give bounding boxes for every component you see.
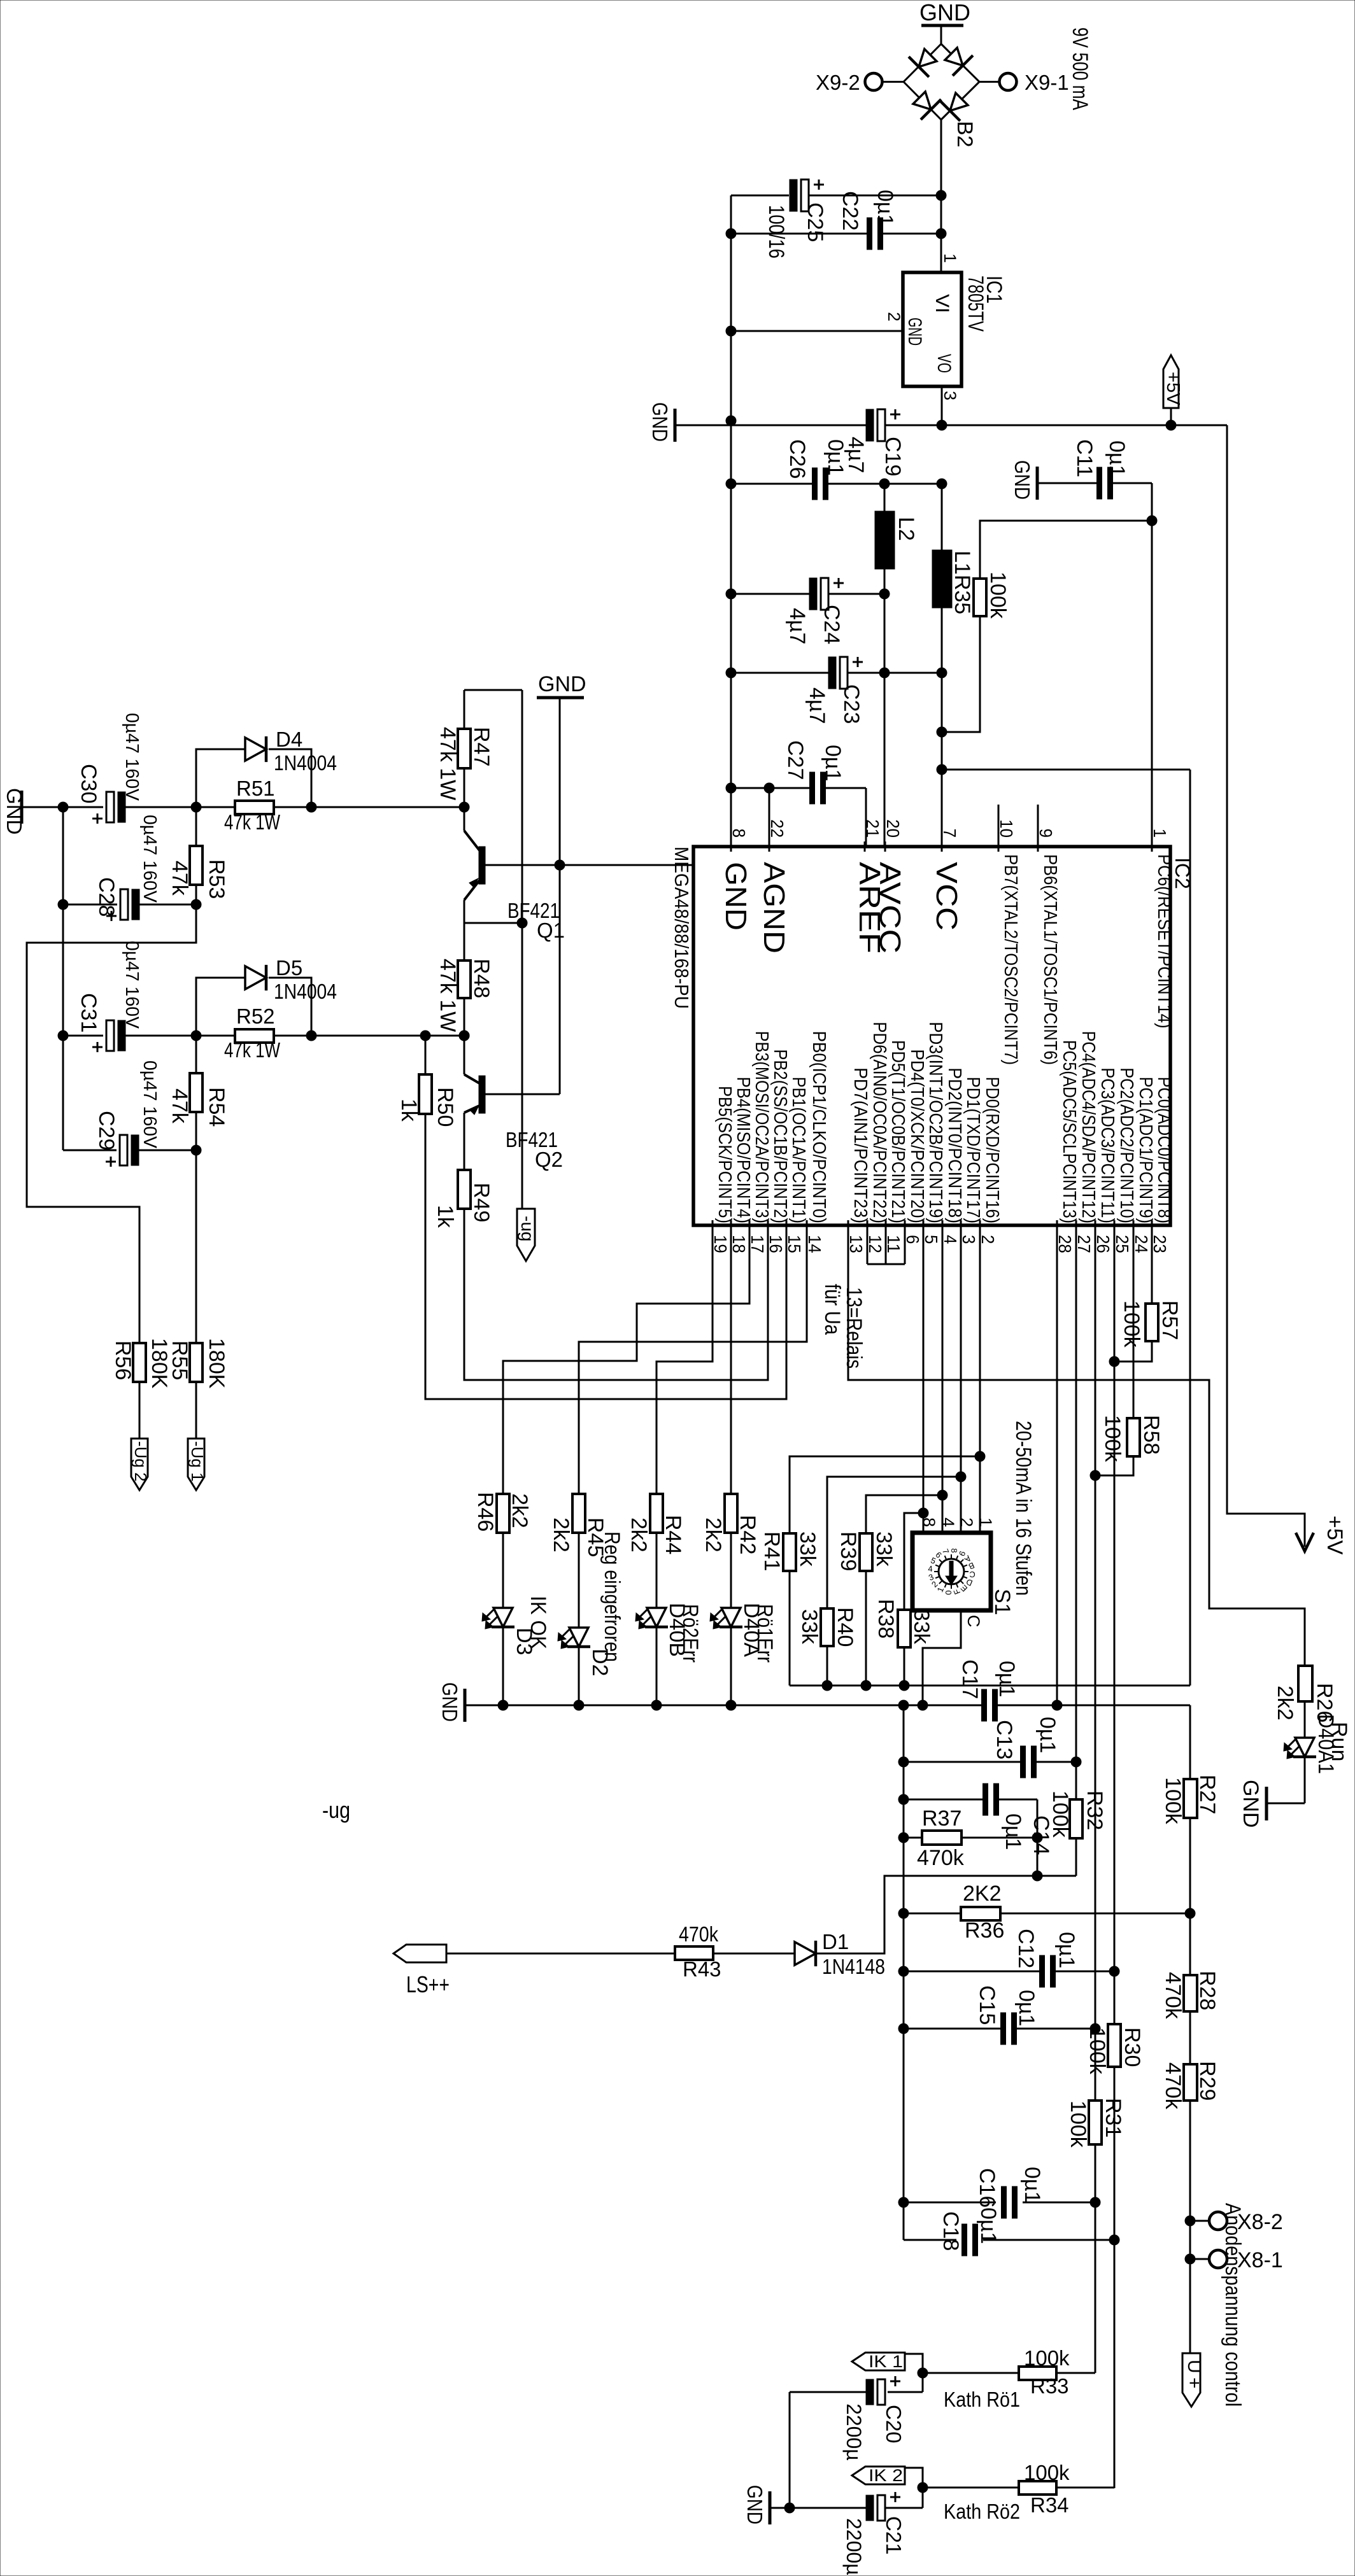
- svg-text:PC0(ADC0/PCINT8): PC0(ADC0/PCINT8): [1154, 1077, 1174, 1223]
- svg-text:D40B: D40B: [665, 1603, 689, 1657]
- svg-text:8: 8: [949, 1548, 959, 1552]
- svg-text:2k2: 2k2: [701, 1517, 725, 1552]
- svg-text:4: 4: [928, 1564, 932, 1573]
- svg-text:100/16: 100/16: [764, 205, 788, 258]
- svg-text:R57: R57: [1158, 1300, 1182, 1340]
- svg-text:R32: R32: [1082, 1791, 1107, 1830]
- svg-text:2k2: 2k2: [507, 1493, 532, 1528]
- svg-text:C19: C19: [881, 437, 905, 476]
- svg-text:R30: R30: [1120, 2027, 1144, 2067]
- svg-text:8: 8: [919, 1517, 939, 1527]
- svg-text:20: 20: [883, 819, 903, 838]
- svg-text:-ug: -ug: [322, 1797, 350, 1823]
- svg-text:PC5(ADC5/SCLPCINT13): PC5(ADC5/SCLPCINT13): [1059, 1040, 1079, 1223]
- svg-text:2200µ: 2200µ: [842, 2404, 865, 2461]
- svg-text:Q2: Q2: [535, 1148, 563, 1171]
- svg-text:100k: 100k: [1066, 2101, 1090, 2148]
- svg-text:C28: C28: [94, 877, 118, 917]
- svg-text:2: 2: [957, 1517, 976, 1527]
- svg-text:470k: 470k: [917, 1846, 965, 1870]
- svg-text:GND: GND: [648, 402, 672, 442]
- svg-text:R56: R56: [111, 1341, 135, 1380]
- svg-text:GND: GND: [3, 788, 26, 834]
- svg-text:0µ1: 0µ1: [1001, 1813, 1025, 1850]
- svg-text:0µ47 160V: 0µ47 160V: [122, 941, 142, 1029]
- svg-text:R31: R31: [1101, 2098, 1125, 2137]
- svg-text:C29: C29: [94, 1111, 118, 1150]
- svg-text:PC4(ADC4/SDA/PCINT12): PC4(ADC4/SDA/PCINT12): [1078, 1031, 1098, 1223]
- svg-text:C31: C31: [76, 993, 101, 1032]
- svg-text:+5V: +5V: [1163, 372, 1183, 405]
- svg-text:PB5(SCK/PCINT5): PB5(SCK/PCINT5): [714, 1086, 735, 1223]
- svg-text:R44: R44: [661, 1515, 685, 1554]
- svg-text:R48: R48: [469, 959, 493, 998]
- svg-text:3: 3: [940, 391, 960, 400]
- svg-text:X9-2: X9-2: [816, 71, 860, 94]
- svg-text:1N4148: 1N4148: [822, 1955, 885, 1978]
- svg-text:GND: GND: [438, 1682, 462, 1722]
- svg-text:Q1: Q1: [537, 918, 565, 942]
- svg-text:15: 15: [784, 1235, 804, 1253]
- svg-text:7805TV: 7805TV: [963, 276, 988, 332]
- svg-text:R42: R42: [735, 1515, 760, 1554]
- svg-text:PB0(ICP1/CLKO/PCINT0): PB0(ICP1/CLKO/PCINT0): [809, 1031, 829, 1223]
- svg-text:4: 4: [939, 1517, 958, 1527]
- svg-text:47k 1W: 47k 1W: [224, 1038, 281, 1062]
- svg-text:AGND: AGND: [758, 862, 791, 954]
- svg-text:4µ7: 4µ7: [785, 608, 809, 644]
- svg-text:27: 27: [1074, 1235, 1094, 1253]
- svg-text:VI: VI: [932, 294, 953, 313]
- svg-text:LS++: LS++: [406, 1971, 450, 1997]
- svg-text:11: 11: [884, 1235, 904, 1253]
- svg-text:VO: VO: [933, 354, 954, 373]
- svg-text:0µ1: 0µ1: [976, 2207, 1000, 2244]
- svg-text:PD5(T1/OC0B/PCINT21): PD5(T1/OC0B/PCINT21): [888, 1040, 908, 1223]
- svg-text:24: 24: [1132, 1235, 1151, 1253]
- svg-text:2k2: 2k2: [549, 1517, 573, 1552]
- svg-text:47k 1W: 47k 1W: [436, 727, 460, 800]
- svg-text:9: 9: [1036, 829, 1056, 838]
- svg-text:19: 19: [711, 1235, 730, 1253]
- svg-text:C22: C22: [838, 191, 862, 230]
- svg-text:3: 3: [959, 1235, 979, 1244]
- svg-text:2K2: 2K2: [963, 1882, 1002, 1906]
- svg-text:PB4(MISO/PCINT4): PB4(MISO/PCINT4): [733, 1077, 753, 1223]
- svg-text:PD7(AIN1/PCINT23): PD7(AIN1/PCINT23): [850, 1067, 870, 1223]
- svg-text:0µ47 160V: 0µ47 160V: [139, 815, 160, 903]
- svg-text:R36: R36: [965, 1918, 1004, 1943]
- svg-text:PB3(MOSI/OC2A/PCINT3): PB3(MOSI/OC2A/PCINT3): [751, 1031, 772, 1223]
- svg-text:7: 7: [940, 829, 960, 838]
- svg-text:IK 1: IK 1: [869, 2352, 903, 2371]
- svg-text:47k 1W: 47k 1W: [224, 810, 281, 834]
- svg-text:1k: 1k: [433, 1205, 457, 1228]
- svg-text:0µ1: 0µ1: [821, 745, 845, 781]
- svg-text:R28: R28: [1195, 1971, 1219, 2010]
- svg-text:C24: C24: [819, 605, 844, 644]
- svg-text:Kath Rö1: Kath Rö1: [944, 2388, 1020, 2411]
- svg-text:PB1(OC1A/PCINT1): PB1(OC1A/PCINT1): [788, 1077, 809, 1223]
- svg-text:GND: GND: [743, 2485, 767, 2524]
- svg-text:13=Relais: 13=Relais: [842, 1287, 866, 1369]
- svg-text:PB7(XTAL2/TOSC2/PCINT7): PB7(XTAL2/TOSC2/PCINT7): [1000, 854, 1021, 1065]
- svg-text:PC3(ADC3/PCINT11): PC3(ADC3/PCINT11): [1097, 1067, 1117, 1223]
- svg-text:21: 21: [863, 819, 883, 838]
- svg-text:PD3(INT1/OC2B/PCINT19): PD3(INT1/OC2B/PCINT19): [925, 1022, 946, 1223]
- svg-text:C23: C23: [839, 684, 863, 724]
- svg-text:C14: C14: [1029, 1815, 1053, 1855]
- svg-text:100k: 100k: [1100, 1415, 1124, 1463]
- svg-text:R53: R53: [204, 859, 229, 899]
- svg-text:6: 6: [903, 1235, 923, 1244]
- svg-text:C30: C30: [76, 764, 101, 803]
- svg-text:PD1(TXD/PCINT17): PD1(TXD/PCINT17): [963, 1077, 983, 1223]
- svg-text:2: 2: [978, 1235, 998, 1244]
- svg-text:470k: 470k: [1161, 2062, 1185, 2110]
- svg-text:C26: C26: [785, 439, 809, 479]
- svg-text:16: 16: [766, 1235, 786, 1253]
- svg-text:0µ47 160V: 0µ47 160V: [122, 713, 142, 801]
- svg-text:0µ1: 0µ1: [1054, 1932, 1079, 1968]
- svg-text:R38: R38: [874, 1599, 898, 1638]
- svg-text:0µ1: 0µ1: [1014, 1990, 1039, 2026]
- svg-text:5: 5: [921, 1235, 941, 1244]
- svg-text:R46: R46: [473, 1492, 497, 1531]
- svg-text:1N4004: 1N4004: [274, 980, 337, 1003]
- svg-text:C: C: [964, 1615, 983, 1628]
- svg-text:Kath Rö2: Kath Rö2: [944, 2500, 1020, 2523]
- svg-text:C11: C11: [1072, 439, 1096, 477]
- svg-text:PD6(AIN0/OC0A/PCINT22): PD6(AIN0/OC0A/PCINT22): [869, 1022, 890, 1223]
- svg-text:1N4004: 1N4004: [274, 751, 337, 775]
- svg-text:X9-1: X9-1: [1025, 71, 1069, 94]
- svg-text:28: 28: [1055, 1235, 1075, 1253]
- svg-text:Reg eingefroren: Reg eingefroren: [600, 1531, 624, 1662]
- svg-text:VCC: VCC: [930, 862, 963, 931]
- svg-text:R55: R55: [167, 1341, 192, 1380]
- svg-text:L2: L2: [894, 517, 918, 541]
- svg-text:C15: C15: [975, 1985, 999, 2025]
- svg-text:22: 22: [767, 819, 787, 838]
- svg-text:C20: C20: [882, 2405, 905, 2444]
- svg-text:100k: 100k: [1024, 2346, 1070, 2370]
- svg-text:C12: C12: [1014, 1929, 1038, 1968]
- svg-text:IK 2: IK 2: [869, 2466, 903, 2485]
- svg-text:U: U: [1184, 2360, 1205, 2374]
- svg-text:R37: R37: [922, 1806, 961, 1831]
- svg-text:0µ1: 0µ1: [1020, 2167, 1044, 2203]
- svg-text:2k2: 2k2: [627, 1517, 651, 1552]
- svg-text:4µ7: 4µ7: [805, 687, 829, 724]
- svg-text:GND: GND: [904, 318, 925, 346]
- svg-text:47k: 47k: [167, 861, 192, 896]
- svg-text:100k: 100k: [1161, 1777, 1185, 1825]
- svg-text:-Ug 1: -Ug 1: [188, 1441, 207, 1482]
- svg-text:14: 14: [805, 1235, 825, 1253]
- svg-text:GND: GND: [538, 672, 586, 696]
- svg-text:D2: D2: [588, 1649, 612, 1676]
- svg-text:18: 18: [729, 1235, 749, 1253]
- svg-text:GND: GND: [919, 0, 970, 25]
- svg-text:MEGA48/88/168-PU: MEGA48/88/168-PU: [670, 847, 693, 1009]
- svg-text:0µ1: 0µ1: [1035, 1717, 1060, 1753]
- svg-text:R52: R52: [236, 1004, 275, 1028]
- svg-text:0µ1: 0µ1: [1105, 440, 1129, 477]
- svg-text:GND: GND: [720, 862, 753, 931]
- svg-text:D3: D3: [512, 1628, 536, 1655]
- svg-text:1: 1: [1150, 829, 1170, 838]
- svg-text:GND: GND: [1011, 460, 1034, 500]
- svg-text:8: 8: [729, 829, 749, 838]
- svg-text:PD2(INT0/PCINT18): PD2(INT0/PCINT18): [944, 1067, 965, 1223]
- svg-text:D40A1: D40A1: [1314, 1714, 1338, 1774]
- svg-text:L1R35: L1R35: [950, 551, 974, 614]
- svg-text:PB6(XTAL1/TOSC1/PCINT6): PB6(XTAL1/TOSC1/PCINT6): [1040, 854, 1060, 1065]
- svg-text:180K: 180K: [204, 1338, 229, 1389]
- svg-text:PB2(SS/OC1B/PCINT2): PB2(SS/OC1B/PCINT2): [770, 1049, 790, 1223]
- svg-text:R43: R43: [683, 1957, 721, 1981]
- svg-text:100k: 100k: [1024, 2461, 1070, 2484]
- svg-text:R41: R41: [760, 1531, 784, 1571]
- svg-text:0µ1: 0µ1: [995, 1661, 1019, 1697]
- svg-text:R47: R47: [469, 727, 493, 766]
- svg-text:47k 1W: 47k 1W: [436, 959, 460, 1032]
- svg-text:100k: 100k: [986, 572, 1010, 619]
- svg-text:100k: 100k: [1119, 1300, 1144, 1348]
- svg-text:D5: D5: [276, 956, 302, 980]
- svg-text:R40: R40: [833, 1607, 857, 1647]
- svg-text:20-50mA in 16 Stufen: 20-50mA in 16 Stufen: [1011, 1421, 1035, 1596]
- svg-text:26: 26: [1093, 1235, 1113, 1253]
- svg-text:23: 23: [1150, 1235, 1170, 1253]
- svg-text:PD4(T0/XCK/PCINT20): PD4(T0/XCK/PCINT20): [907, 1049, 927, 1223]
- svg-text:S1: S1: [990, 1589, 1014, 1615]
- svg-text:R39: R39: [836, 1531, 860, 1571]
- svg-text:25: 25: [1112, 1235, 1132, 1253]
- svg-text:C13: C13: [992, 1720, 1016, 1759]
- svg-text:C25: C25: [803, 202, 827, 242]
- svg-text:33k: 33k: [797, 1609, 821, 1645]
- svg-text:C27: C27: [783, 740, 807, 780]
- svg-text:C16: C16: [975, 2168, 999, 2207]
- svg-text:PC2(ADC2/PCINT10): PC2(ADC2/PCINT10): [1116, 1067, 1137, 1223]
- svg-text:R58: R58: [1139, 1415, 1163, 1454]
- svg-text:AVCC: AVCC: [874, 862, 907, 954]
- svg-text:GND: GND: [1238, 1780, 1263, 1828]
- svg-text:Anodenspannung control: Anodenspannung control: [1221, 2203, 1245, 2407]
- svg-text:R27: R27: [1195, 1775, 1219, 1814]
- svg-text:33k: 33k: [872, 1531, 896, 1567]
- svg-text:0µ47 160V: 0µ47 160V: [139, 1060, 160, 1149]
- svg-text:für Ua: für Ua: [820, 1284, 844, 1335]
- svg-text:D40A: D40A: [739, 1603, 763, 1657]
- svg-text:4: 4: [940, 1235, 960, 1244]
- svg-text:2k2: 2k2: [1273, 1686, 1297, 1721]
- svg-text:100k: 100k: [1085, 2027, 1109, 2075]
- svg-text:R34: R34: [1030, 2493, 1069, 2517]
- svg-text:+5V: +5V: [1323, 1516, 1347, 1555]
- svg-text:R33: R33: [1030, 2374, 1069, 2398]
- svg-text:2200µ: 2200µ: [842, 2518, 865, 2575]
- svg-text:R50: R50: [433, 1087, 457, 1127]
- svg-text:R54: R54: [204, 1087, 229, 1127]
- svg-text:D1: D1: [822, 1930, 849, 1953]
- svg-text:PD0(RXD/PCINT16): PD0(RXD/PCINT16): [982, 1077, 1002, 1223]
- svg-text:+: +: [1184, 2377, 1205, 2389]
- svg-text:C18: C18: [939, 2211, 963, 2251]
- svg-text:33k: 33k: [909, 1609, 933, 1645]
- svg-text:470k: 470k: [1161, 1972, 1185, 2020]
- svg-text:R51: R51: [236, 777, 275, 800]
- svg-text:1k: 1k: [397, 1099, 421, 1122]
- svg-text:13: 13: [846, 1235, 866, 1253]
- svg-text:-ug: -ug: [518, 1216, 537, 1241]
- svg-text:C17: C17: [958, 1659, 982, 1699]
- svg-text:PC6(/RESET/PCINT14): PC6(/RESET/PCINT14): [1154, 854, 1174, 1029]
- svg-text:R29: R29: [1195, 2061, 1219, 2101]
- svg-text:C21: C21: [882, 2516, 905, 2555]
- svg-text:PC1(ADC1/PCINT9): PC1(ADC1/PCINT9): [1135, 1077, 1156, 1223]
- svg-text:D4: D4: [276, 728, 302, 751]
- svg-text:B2: B2: [953, 121, 977, 148]
- svg-text:47k: 47k: [167, 1088, 192, 1124]
- svg-text:17: 17: [748, 1235, 767, 1253]
- svg-text:33k: 33k: [795, 1531, 819, 1567]
- svg-text:10: 10: [997, 819, 1016, 838]
- svg-text:470k: 470k: [679, 1922, 718, 1946]
- svg-text:0µ1: 0µ1: [873, 190, 897, 226]
- svg-text:1: 1: [976, 1517, 995, 1527]
- svg-text:-Ug 2: -Ug 2: [131, 1441, 150, 1482]
- svg-text:9V 500 mA: 9V 500 mA: [1068, 27, 1092, 110]
- svg-text:2: 2: [884, 312, 904, 321]
- svg-text:1: 1: [940, 253, 960, 263]
- svg-text:R49: R49: [469, 1183, 493, 1222]
- svg-text:12: 12: [865, 1235, 885, 1253]
